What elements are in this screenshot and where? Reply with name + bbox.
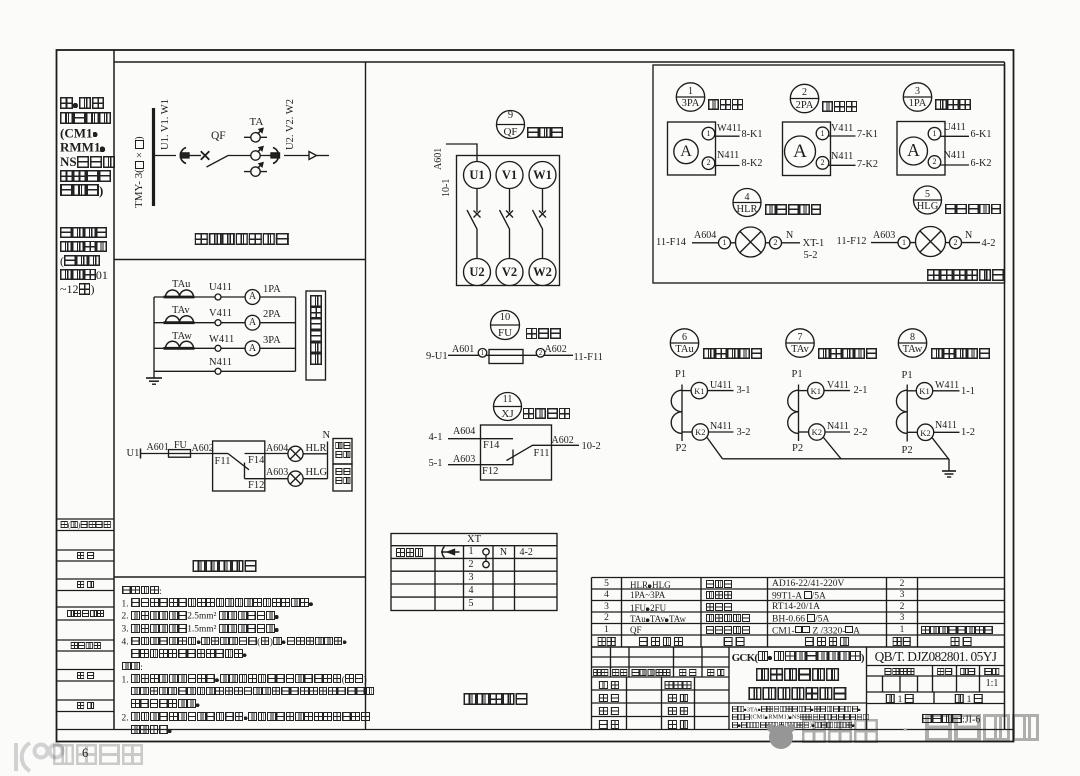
strip column note paragraph 1 <box>60 97 116 198</box>
page number 6 <box>82 747 88 760</box>
lamp HLG pin digit 1 <box>902 239 906 247</box>
net label N <box>323 431 331 442</box>
ammeter 2PA movement <box>785 136 816 167</box>
ref TAv text <box>791 345 809 356</box>
ammeter letter A 3 <box>249 344 256 354</box>
pin P1 TAv <box>792 370 803 381</box>
CT TAw K2 <box>917 424 933 440</box>
CT TAu winding <box>671 390 682 433</box>
caption instrument door wiring <box>927 269 1005 282</box>
wire label A601 (fuse) <box>452 345 474 355</box>
CT TAv symbol <box>164 316 195 323</box>
XT jumper terminals 1-2 <box>483 549 489 568</box>
CT TAv K2 <box>809 424 825 440</box>
phase V wire row <box>154 322 296 324</box>
CT TAw K1 wire W411 <box>933 390 960 392</box>
stamp header cells <box>884 668 915 676</box>
dest 7-K1 <box>857 130 878 140</box>
ammeter 2PA pin 2 wire <box>827 164 856 166</box>
spec note small text <box>732 706 869 730</box>
ammeter 1PA letter <box>907 142 920 160</box>
wire label A601 <box>147 443 169 453</box>
opening indication label box <box>333 464 352 491</box>
parts row 3 <box>604 603 609 613</box>
drawout contact right (socket) <box>271 148 280 164</box>
wire label A602 (XJ) <box>552 436 574 446</box>
device name ammeter 1 <box>708 99 744 111</box>
opening indication text <box>335 467 350 485</box>
wire label 10-1 vertical <box>442 171 452 197</box>
technical notes text <box>122 586 375 738</box>
inner frame right line <box>1004 62 1006 730</box>
ref circle 3 1PA <box>903 83 931 111</box>
XT table title <box>467 535 481 546</box>
CT TAw primary wire P1-P2 <box>906 385 908 442</box>
net label U411 (door) <box>944 123 966 133</box>
ref circle 8 TAw <box>898 329 926 357</box>
lamp HLG pin digit 2 <box>954 239 958 247</box>
inner frame top line <box>114 61 1005 63</box>
net N (door lamp1) <box>786 231 793 241</box>
fuse body inner line <box>489 354 523 356</box>
CT TAu K2 wire N411 <box>709 431 734 433</box>
strip column note paragraph 2 <box>60 226 108 297</box>
pin label F11 (XJ) <box>534 449 550 460</box>
wire TA to drawout contact right <box>267 155 271 157</box>
wire label A603 <box>266 468 288 478</box>
device name fuse <box>526 328 562 340</box>
wire label A604 (XJ) <box>453 427 475 437</box>
title block centre/right dividers <box>729 647 1005 730</box>
ammeter 1PA pin 1 wire <box>939 135 969 137</box>
dest 5-2 <box>804 251 818 262</box>
device label 2PA <box>263 310 281 321</box>
CT TAw winding <box>896 390 907 433</box>
lamp HLG pin 1 <box>898 237 910 249</box>
column divider between left schematic column and middle column <box>365 62 367 730</box>
ref circle 5 HLG <box>914 186 942 214</box>
breaker QF fixed contact cross <box>201 151 210 160</box>
pin P1 TAu <box>675 370 686 381</box>
phase W wire row <box>154 347 296 349</box>
strip field text date <box>77 702 95 711</box>
ammeter 2PA pin digit 2 <box>821 159 825 167</box>
contact pole tick <box>244 463 246 479</box>
lamp HLR wire 11-F14 <box>692 242 800 244</box>
XT row label terminal bar <box>396 548 424 559</box>
dest XT-1 <box>803 239 825 250</box>
XT terminal number 2 <box>469 560 474 570</box>
ammeter 1PA movement <box>900 137 928 165</box>
breaker QF blade <box>207 156 244 168</box>
CT TAu K1 wire U411 <box>708 390 734 392</box>
ref HLR text <box>737 205 758 216</box>
node label U1.V1.W1 <box>161 102 172 150</box>
ref 2 digit <box>802 88 807 98</box>
contact common wire into box <box>213 453 228 455</box>
ref 7 digit <box>798 333 803 343</box>
wire label A604 (door) <box>694 231 716 241</box>
ref XJ text <box>501 409 513 420</box>
ref circle 2 2PA <box>790 84 818 112</box>
CT label TAu <box>172 280 190 291</box>
XJ pole tick <box>512 450 514 465</box>
device name auxiliary contact <box>523 408 571 420</box>
strip field text tracing <box>77 552 95 561</box>
device label 3PA <box>263 336 281 347</box>
watermark bottom-right logo <box>764 722 798 754</box>
disc page code <box>922 714 980 725</box>
measuring loop right riser wire <box>295 297 297 371</box>
dest 2-2 <box>854 428 868 439</box>
ammeter 1PA pin 2 <box>928 156 941 169</box>
parts row 5 <box>604 580 609 590</box>
busbar TMY-3 <box>152 108 155 206</box>
dest 8-K1 <box>742 130 763 140</box>
watermark bottom-left logo <box>8 735 68 776</box>
ammeter 2PA pin 1 wire <box>827 135 856 137</box>
XJ blade F11 <box>507 445 552 460</box>
CT TAu primary wire P1-P2 <box>681 385 683 442</box>
pin K2 TAw <box>920 429 930 438</box>
fuse label FU <box>174 441 187 451</box>
closing indication label box <box>333 439 352 465</box>
ref QF text <box>503 127 517 138</box>
strip field box 6 (signature) <box>57 670 114 682</box>
CT TAu K1 lead <box>682 390 691 392</box>
fuse FU (secondary) <box>169 450 213 458</box>
CT TAu K2 <box>692 424 708 440</box>
pin label F12 <box>248 481 264 492</box>
ammeter 3PA pin 1 wire <box>713 135 740 137</box>
parts row 2 <box>604 614 609 624</box>
dest 7-K2 <box>857 160 878 170</box>
pin P2 TAv <box>792 444 803 455</box>
device name CT 1 <box>703 348 763 360</box>
net N411 (CT2) <box>827 422 849 432</box>
parts row 1 <box>604 626 609 636</box>
ground at measuring loop <box>146 371 162 384</box>
pole terminal W2 <box>533 266 552 279</box>
dest 1-2 <box>961 428 975 439</box>
strip field box 2 (tracing) <box>57 550 114 561</box>
ref circle 4 HLR <box>733 189 761 217</box>
ammeter 1PA pin 2 wire <box>939 164 969 166</box>
pole terminal U1 <box>469 169 484 182</box>
lamp label HLG <box>306 468 328 479</box>
lamp HLR pin 1 <box>719 237 731 249</box>
ref circle 7 TAv <box>786 329 814 357</box>
wire label A604 <box>266 444 288 454</box>
ref circle 9 QF <box>497 111 525 139</box>
ref circle 1 3PA <box>676 83 704 111</box>
fuse terminal 2 <box>536 349 545 358</box>
title block revision rows grid <box>592 647 730 677</box>
ammeter 1PA <box>245 290 260 305</box>
XJ wire 4-1/A604 <box>448 438 513 440</box>
fuse FU body <box>489 350 523 364</box>
wire label A602 (fuse) <box>545 345 567 355</box>
CT TAv K2 drop wire <box>824 438 842 459</box>
CT TAv K2 lead <box>799 431 809 433</box>
net N411 (CT3) <box>935 421 957 431</box>
device name ammeter 3 <box>935 99 971 111</box>
lamp HLG wire to N <box>303 478 327 480</box>
wire label 5-1 <box>429 459 443 470</box>
lamp HLG bulb <box>916 227 946 257</box>
wire label 11-F14 (door) <box>656 238 686 249</box>
neutral N411 wire row <box>154 370 296 372</box>
pole U1-U2 <box>464 162 491 286</box>
wire label 11-F11 <box>574 353 604 364</box>
current transformer TA (3 cores) <box>244 128 268 176</box>
wire busbar to drawout contact <box>155 155 176 157</box>
pole terminal V1 <box>502 169 517 182</box>
ammeter 3PA pin 2 <box>702 157 715 170</box>
lamp HLR bulb <box>736 227 766 257</box>
XT terminal number 4 <box>469 586 474 596</box>
terminal V411 <box>215 320 221 326</box>
net label W411 (door) <box>717 124 742 134</box>
ref 8 digit <box>910 333 915 343</box>
ammeter 1PA pin 1 <box>928 127 941 140</box>
ammeter 3PA pin 2 wire <box>713 165 740 167</box>
revision header cells <box>593 669 609 677</box>
CT TAw K1 <box>916 383 932 399</box>
wire label 11-F12 (door) <box>837 237 867 248</box>
net W411 (CT) <box>935 381 959 391</box>
dest 8-K2 <box>742 159 763 169</box>
terminal W411 <box>215 345 221 351</box>
instrument door box <box>653 65 1005 283</box>
CT TAw K2 wire N411 <box>934 431 960 433</box>
XT net N <box>500 548 507 558</box>
wire label 4-1 <box>429 433 443 444</box>
device label 1PA <box>263 285 281 296</box>
CT TAu symbol <box>164 290 195 297</box>
caption secondary wiring diagram <box>464 693 529 706</box>
ref 10 digit <box>500 313 511 324</box>
indicator lamp HLG <box>288 471 303 486</box>
parts header row <box>597 637 616 648</box>
XT terminal number 1 <box>469 547 474 557</box>
drawing number <box>875 650 997 663</box>
lamp HLR pin digit 1 <box>723 239 727 247</box>
wire label 9-U1 <box>426 352 448 363</box>
drawing title secondary schematic <box>748 687 847 702</box>
ref 6 digit <box>682 333 687 343</box>
strip field box 3 (checking) <box>57 579 114 591</box>
ammeter 2PA case <box>783 122 831 176</box>
ref 4 digit <box>745 193 750 203</box>
CT TAw K2 lead <box>907 431 917 433</box>
ammeter 2PA letter <box>793 142 807 161</box>
fuse pin digit 2 <box>539 350 543 357</box>
pole terminal W1 <box>533 169 552 182</box>
net label V411 <box>209 309 232 320</box>
parts list table grid <box>592 578 1005 730</box>
ref 5 digit <box>925 190 930 200</box>
ref 1 digit <box>688 87 693 97</box>
lamp HLR pin 2 <box>770 237 782 249</box>
lamp HLG pin 2 <box>950 237 962 249</box>
ref 11 digit <box>502 395 512 406</box>
terminal strip XT table grid <box>391 534 557 611</box>
pin K2 TAv <box>812 428 822 437</box>
ref 1PA text <box>909 99 927 110</box>
separator above technical notes <box>114 576 366 578</box>
incoming lead A601 wire <box>446 144 477 162</box>
fuse terminal 1 <box>478 349 487 358</box>
auxiliary contact XJ box <box>481 425 552 480</box>
ammeter 2PA <box>245 315 260 330</box>
strip field text borrow record <box>60 521 111 529</box>
pole terminal V2 <box>502 266 517 279</box>
ref TAw text <box>903 345 923 356</box>
breaker QF outline box <box>457 156 560 286</box>
ammeter 3PA case <box>668 122 716 175</box>
current measuring loop label box <box>306 291 326 380</box>
phase U wire row <box>154 296 296 298</box>
pin label F14 <box>248 456 264 467</box>
CT TAv K2 wire N411 <box>825 431 850 433</box>
device name ammeter 2 <box>822 101 858 113</box>
ammeter 3PA letter <box>680 144 692 160</box>
ref FU text <box>498 328 512 339</box>
CT TAu K1 <box>691 382 707 398</box>
pin K2 TAu <box>695 428 705 437</box>
ammeter 3PA pin digit 2 <box>707 159 711 167</box>
ref 3PA text <box>682 99 700 110</box>
caption secondary schematic <box>193 560 258 573</box>
strip field text master no <box>70 642 100 650</box>
ammeter letter A 1 <box>249 292 256 302</box>
fuse wire 9-U1 to 11-F11 <box>448 354 573 356</box>
pin K1 TAv <box>811 387 821 396</box>
device name breaker <box>527 127 563 139</box>
contact F12 output wire <box>245 478 289 480</box>
CT label TAv <box>172 306 190 317</box>
CT TAv winding <box>788 390 799 433</box>
XT terminal number 5 <box>469 599 474 609</box>
XT drawout arrow symbol <box>441 547 460 558</box>
device name closing indicator lamp <box>765 204 822 217</box>
node label U1 (secondary) <box>127 449 140 460</box>
ammeter 3PA pin digit 1 <box>707 130 711 138</box>
caption primary wiring diagram <box>195 233 289 247</box>
binding strip divider <box>113 50 115 730</box>
net label U411 <box>209 283 232 294</box>
ammeter 1PA pin digit 1 <box>933 130 937 138</box>
pin label F12 (XJ) <box>482 467 498 478</box>
CT TAw K1 lead <box>907 390 916 392</box>
parts row 4 <box>604 591 609 601</box>
pin P2 TAw <box>902 446 913 457</box>
ammeter 3PA pin 1 <box>702 127 715 140</box>
wire label A603 (door) <box>873 231 895 241</box>
busbar label TMY-3 <box>134 110 145 208</box>
strip field text old master no <box>67 610 105 618</box>
net N (door lamp2) <box>965 231 972 241</box>
ammeter 1PA case <box>897 122 945 176</box>
ammeter 2PA pin 2 <box>816 157 829 170</box>
CT TAw K2 drop wire <box>932 438 949 460</box>
ammeter letter A 2 <box>249 318 256 328</box>
drawing title drawer feeder <box>756 668 840 684</box>
ref HLG text <box>917 202 939 213</box>
wire label A601 vertical <box>434 145 444 170</box>
strip field text checking <box>77 581 95 590</box>
pin P1 TAw <box>902 371 913 382</box>
XT terminal number 3 <box>469 573 474 583</box>
net label N411 (door3) <box>944 151 966 161</box>
CT TAv primary wire P1-P2 <box>798 385 800 442</box>
neutral N riser <box>327 442 329 479</box>
ref 9 digit <box>508 111 513 122</box>
strip field box 7 (date) <box>57 700 114 712</box>
watermark bottom-left text <box>52 744 144 767</box>
CT label TA <box>250 117 264 128</box>
ref 3 digit <box>915 87 920 97</box>
XJ output wire A602 to 10-2 <box>552 444 580 446</box>
lamp HLR pin digit 2 <box>774 239 778 247</box>
wire to breaker QF <box>189 155 201 157</box>
dest 6-K2 <box>971 159 992 169</box>
drawing title GCK <box>732 651 864 664</box>
device name opening indicator lamp <box>945 204 1002 217</box>
ground (CT star point) <box>942 471 956 477</box>
closing indication text <box>335 441 350 459</box>
net label N411 <box>209 358 232 369</box>
wire label A602 <box>192 444 214 454</box>
scale value 1:1 <box>986 679 999 689</box>
CT TAv K1 lead <box>799 390 808 392</box>
CT TAu K2 drop wire <box>707 438 723 459</box>
fuse pin digit 1 <box>481 350 485 357</box>
pin label F11 <box>215 457 231 468</box>
separator under primary diagram box <box>114 259 366 261</box>
dest 1-1 <box>961 387 975 398</box>
wire U1 to fuse FU <box>141 453 169 455</box>
dest 3-2 <box>737 428 751 439</box>
net V411 (CT) <box>827 381 849 391</box>
auxiliary contact box (secondary diagram) <box>213 441 265 491</box>
pin K1 TAu <box>694 387 704 396</box>
ref circle 11 XJ <box>494 393 522 421</box>
ammeter 1PA pin digit 2 <box>933 158 937 166</box>
ammeter 2PA pin digit 1 <box>821 130 825 138</box>
ref circle 10 FU <box>491 311 520 340</box>
terminal U411 <box>215 294 221 300</box>
net label W411 <box>209 335 234 346</box>
ground lead <box>948 459 950 471</box>
ammeter 2PA pin 1 <box>816 127 829 140</box>
strip field box 1 (borrow record) <box>57 519 114 531</box>
ammeter 3PA movement <box>674 139 698 163</box>
net label N411 (door1) <box>717 151 739 161</box>
contact F14 output wire <box>245 453 289 455</box>
sheet total <box>886 694 914 705</box>
wire label 10-2 <box>582 442 601 453</box>
outgoing feeder wire with arrow <box>284 152 329 160</box>
measuring loop left riser wire <box>153 297 155 371</box>
CT TAw symbol <box>164 341 195 348</box>
inner frame bottom line <box>57 729 1014 731</box>
CT TAv K1 wire V411 <box>824 390 850 392</box>
pin P2 TAu <box>676 444 687 455</box>
device name CT 2 <box>818 348 878 360</box>
vertical caption current measuring loop <box>310 295 324 365</box>
